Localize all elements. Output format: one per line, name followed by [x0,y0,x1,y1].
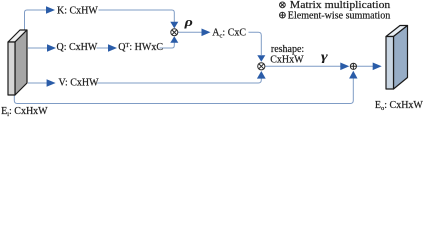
svg-text:QT: HWxC: QT: HWxC [118,42,163,53]
svg-text:Ac: CxC: Ac: CxC [212,28,246,40]
svg-text:Element-wise summation: Element-wise summation [288,10,391,21]
svg-text:Eo: CxHxW: Eo: CxHxW [375,100,423,112]
svg-text:γ: γ [321,49,329,64]
svg-text:reshape:: reshape: [271,44,304,55]
svg-text:K: CxHW: K: CxHW [57,5,98,16]
svg-text:V: CxHW: V: CxHW [59,77,100,88]
svg-text:Ei: CxHxW: Ei: CxHxW [1,106,48,118]
svg-text:ρ: ρ [183,14,193,29]
svg-text:Q: CxHW: Q: CxHW [57,42,98,53]
svg-text:CxHxW: CxHxW [270,54,304,65]
